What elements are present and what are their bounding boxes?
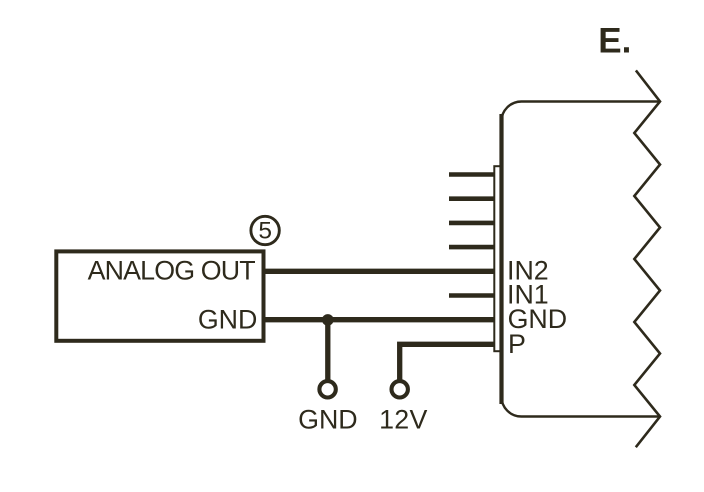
svg-text:12V: 12V <box>379 405 428 435</box>
svg-text:E.: E. <box>598 22 631 61</box>
svg-text:5: 5 <box>258 218 272 245</box>
svg-text:P: P <box>508 329 526 359</box>
svg-text:ANALOG OUT: ANALOG OUT <box>88 256 256 286</box>
svg-text:GND: GND <box>298 405 358 435</box>
svg-text:GND: GND <box>198 305 258 335</box>
